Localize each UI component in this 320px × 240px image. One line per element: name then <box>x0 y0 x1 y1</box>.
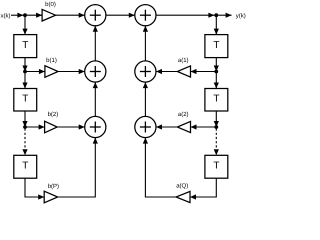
wire a(Q) left and up to adder S6 <box>143 138 176 197</box>
svg-text:T: T <box>22 160 28 171</box>
wire b(P) right and up to adder S5 <box>58 138 98 197</box>
gain a(Q) value label <box>176 182 188 189</box>
wire delay T3 down and right to b(P) <box>25 178 44 199</box>
node N6 <box>214 125 218 129</box>
node N2 <box>214 13 218 17</box>
wire delay T4 to node N5 <box>214 58 219 72</box>
gain a(1) value label <box>178 57 189 64</box>
gain a(1) <box>177 66 190 77</box>
output label y(k) <box>236 13 246 20</box>
delay T4 <box>205 35 228 58</box>
svg-text:b(0): b(0) <box>45 1 56 8</box>
svg-text:x(k): x(k) <box>1 12 11 19</box>
gain b(1) <box>45 66 58 78</box>
node N1 <box>23 13 27 17</box>
wire adder S1 to adder S2 <box>106 13 135 18</box>
op: adder S5 <box>85 116 106 137</box>
delay T5 <box>205 89 228 112</box>
svg-text:b(1): b(1) <box>46 57 57 64</box>
wire node N3 to b(1) <box>25 69 45 74</box>
node N5 <box>214 70 218 74</box>
gain b(2) value label <box>48 111 59 118</box>
gain b(2) <box>45 121 58 133</box>
wire a(1) to adder S4 <box>156 69 177 74</box>
wire adder S2 to node N2 <box>156 13 216 18</box>
wire adder S4 up to adder S2 <box>143 26 148 61</box>
gain b(0) value label <box>45 1 56 8</box>
wire adder S6 up to adder S4 <box>143 82 148 116</box>
wire adder S3 up to adder S1 <box>93 26 98 61</box>
svg-text:a(2): a(2) <box>178 111 189 118</box>
wire node N1 down to delay T1 <box>22 15 27 34</box>
gain a(2) value label <box>178 111 189 118</box>
wire x(k) to node N1 <box>11 13 24 18</box>
dashed wire node N6 down to delay T6 <box>214 129 219 156</box>
wire adder S5 up to adder S3 <box>93 82 98 116</box>
input label x(k) <box>1 12 11 19</box>
svg-text:y(k): y(k) <box>236 13 246 20</box>
wire node N6 to a(2) <box>191 124 217 129</box>
wire node N2 down to delay T4 <box>214 15 219 34</box>
op: adder S3 <box>85 61 106 82</box>
dashed wire node N4 down to delay T3 <box>22 129 27 156</box>
wire node N2 to y(k) <box>216 13 231 18</box>
op: adder S1 <box>85 5 106 26</box>
op: adder S6 <box>135 116 156 137</box>
wire node N5 down to delay T5 <box>214 72 219 89</box>
wire delay T1 to node N3 <box>22 58 27 72</box>
delay T2 <box>14 89 37 112</box>
node N4 <box>23 125 27 129</box>
wire b(0) to adder S1 <box>56 13 85 18</box>
delay T1 <box>14 35 37 58</box>
delay T6 <box>205 155 228 178</box>
wire delay T5 to node N6 <box>214 111 219 127</box>
wire a(2) to adder S6 <box>156 124 177 129</box>
wire b(1) to adder S3 <box>58 69 85 74</box>
svg-text:b(P): b(P) <box>48 183 59 190</box>
wire node N1 to b(0) <box>25 13 42 18</box>
gain b(1) value label <box>46 57 57 64</box>
op: adder S4 <box>135 61 156 82</box>
wire delay T6 down and left to a(Q) <box>190 178 216 199</box>
gain a(2) <box>177 121 190 132</box>
svg-text:T: T <box>213 40 219 51</box>
svg-text:T: T <box>22 40 28 51</box>
svg-text:T: T <box>213 160 219 171</box>
wire node N3 down to delay T2 <box>22 72 27 89</box>
gain a(Q) <box>176 191 190 202</box>
svg-text:T: T <box>22 94 28 105</box>
svg-text:a(1): a(1) <box>178 57 189 64</box>
gain b(P) <box>44 191 58 203</box>
wire delay T2 to node N4 <box>22 111 27 127</box>
svg-text:a(Q): a(Q) <box>176 182 188 189</box>
svg-text:T: T <box>213 94 219 105</box>
gain b(P) value label <box>48 183 59 190</box>
wire b(2) to adder S5 <box>57 124 84 129</box>
op: adder S2 <box>135 5 156 26</box>
node N3 <box>23 70 27 74</box>
delay T3 <box>14 155 37 178</box>
gain b(0) <box>42 9 56 21</box>
wire node N5 to a(1) <box>191 69 217 74</box>
wire node N4 to b(2) <box>25 124 45 129</box>
svg-text:b(2): b(2) <box>48 111 59 118</box>
